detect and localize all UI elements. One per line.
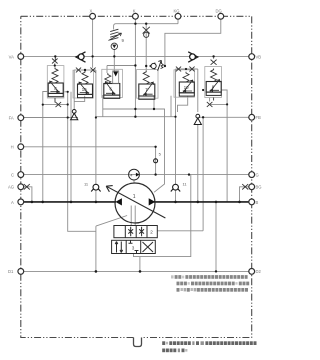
svg-text:10: 10	[82, 87, 87, 92]
svg-text:10: 10	[184, 85, 189, 90]
svg-text:DG: DG	[216, 9, 222, 14]
svg-text:C: C	[11, 173, 14, 178]
svg-text:A: A	[11, 200, 14, 205]
svg-text:B: B	[256, 200, 259, 205]
svg-text:G: G	[256, 173, 259, 178]
svg-text:H: H	[11, 145, 14, 150]
svg-text:K: K	[133, 9, 136, 14]
svg-text:BG: BG	[256, 185, 262, 190]
svg-text:D2: D2	[256, 269, 262, 274]
svg-text:VB: VB	[256, 55, 262, 60]
svg-text:3: 3	[132, 246, 135, 251]
svg-text:X: X	[90, 9, 93, 14]
svg-text:D1: D1	[8, 269, 14, 274]
svg-text:VA: VA	[9, 54, 14, 59]
svg-text:2: 2	[150, 230, 153, 235]
svg-text:KG: KG	[174, 9, 180, 14]
svg-text:1: 1	[133, 194, 136, 200]
svg-text:FA: FA	[9, 115, 14, 120]
svg-text:AG: AG	[8, 185, 14, 190]
svg-text:FB: FB	[256, 115, 262, 120]
